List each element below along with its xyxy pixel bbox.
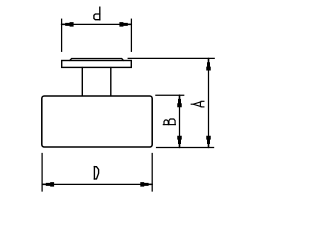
- arrowhead d right: [119, 22, 131, 27]
- dimension D line: [42, 183, 152, 185]
- arrowhead B top: [177, 96, 182, 108]
- neck left line: [81, 68, 83, 96]
- flange outline: [62, 61, 132, 68]
- bottom extension line for A and B: [157, 147, 214, 149]
- body outline: [42, 96, 152, 147]
- dimension d right extension line: [130, 19, 132, 51]
- arrowhead B bottom: [177, 136, 182, 148]
- label B (rotated): [163, 119, 175, 125]
- dimension A line: [208, 58, 210, 147]
- arrowhead d left: [62, 22, 74, 27]
- arrowhead D right: [140, 182, 152, 187]
- arrowhead A bottom: [206, 136, 211, 148]
- dimension B line: [179, 95, 181, 147]
- arrowhead A top: [206, 59, 211, 71]
- dimension d left extension line: [61, 19, 63, 51]
- dimension d line: [62, 23, 132, 25]
- neck right line: [110, 68, 112, 96]
- label d: [94, 7, 100, 20]
- dimension D left extension line: [41, 154, 43, 192]
- dimension B top extension line: [156, 94, 184, 96]
- dimension D right extension line: [151, 154, 153, 192]
- arrowhead D left: [43, 182, 55, 187]
- label D: [94, 167, 98, 179]
- top plate line: [70, 59, 123, 61]
- label A (rotated): [191, 101, 204, 107]
- dimension A top extension line: [128, 57, 214, 59]
